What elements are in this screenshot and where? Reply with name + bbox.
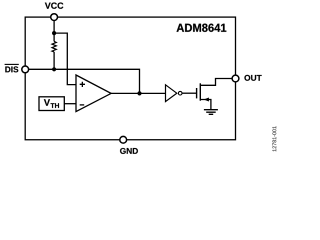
- node junction DIS/comparator output: [137, 91, 141, 95]
- label DIS with overline: [5, 66, 18, 72]
- node junction at resistor top: [52, 31, 56, 35]
- transistor Q1 gate bar: [196, 88, 198, 98]
- comparator U1: [76, 75, 111, 112]
- label VCC: [45, 2, 63, 8]
- wire branch VCC to comparator + input: [54, 33, 76, 84]
- inverter bubble: [178, 91, 182, 95]
- VTH reference box: [39, 97, 64, 111]
- wire drain to OUT: [200, 79, 232, 86]
- wire source: [200, 100, 211, 110]
- VTH label: [44, 99, 59, 108]
- IC boundary box: [25, 17, 235, 140]
- minus symbol: [80, 104, 85, 106]
- wire VCC vertical: [53, 20, 55, 41]
- plus symbol: [80, 82, 85, 87]
- pin DIS: [22, 66, 29, 73]
- body arrow: [204, 98, 209, 102]
- pin OUT: [232, 75, 239, 82]
- node junction resistor/DIS: [52, 67, 56, 71]
- figure code 12781-001: [272, 126, 276, 151]
- transistor Q1 channel bar: [199, 83, 201, 100]
- chip label ADM8641: [177, 24, 227, 32]
- resistor R1: [52, 41, 56, 52]
- label GND: [120, 148, 138, 154]
- wire inverter to gate: [182, 92, 197, 94]
- pin GND: [120, 136, 127, 143]
- pin VCC: [51, 14, 58, 21]
- ground symbol: [204, 110, 218, 115]
- wire resistor bottom: [53, 52, 55, 69]
- inverter U2: [166, 85, 177, 102]
- label OUT: [244, 75, 261, 81]
- wire comparator output: [111, 92, 165, 94]
- wire VTH to inverting input: [64, 103, 75, 105]
- wire DIS rail: [29, 69, 140, 93]
